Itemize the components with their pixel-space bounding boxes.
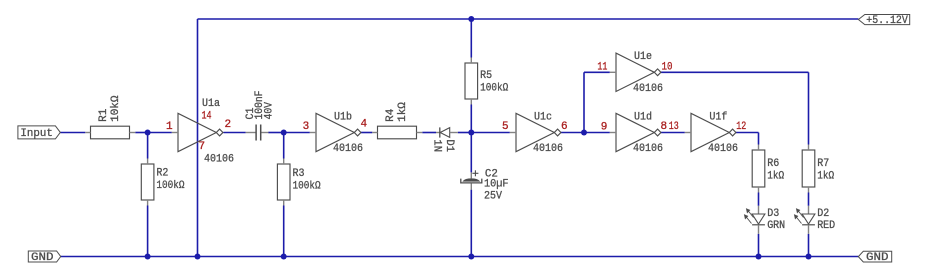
GND port flag (left) xyxy=(28,251,60,264)
wire U1c output to U1d input xyxy=(561,132,610,134)
svg-text:100kΩ: 100kΩ xyxy=(156,180,184,192)
svg-text:R6: R6 xyxy=(767,158,779,170)
wire node A down to R2 xyxy=(147,133,149,159)
svg-text:R1: R1 xyxy=(98,108,110,122)
svg-text:12: 12 xyxy=(736,121,746,133)
junction R2 / GND xyxy=(145,254,151,260)
svg-text:40106: 40106 xyxy=(533,143,563,155)
wire to U1e input xyxy=(584,71,610,73)
junction D2 / GND xyxy=(806,254,812,260)
wire node C to U1c input xyxy=(471,132,510,134)
svg-text:7: 7 xyxy=(199,141,206,153)
svg-text:R5: R5 xyxy=(480,70,492,82)
wire R2 to GND rail xyxy=(147,206,149,257)
junction top rail / R5 xyxy=(468,16,474,22)
wire node D up to U1e input xyxy=(583,72,585,132)
svg-text:R7: R7 xyxy=(817,158,829,170)
svg-text:R4: R4 xyxy=(385,108,397,122)
svg-text:RED: RED xyxy=(817,220,835,232)
inverter U1d (40106 Schmitt trigger) xyxy=(610,111,663,155)
+5..12V supply port flag xyxy=(858,15,909,28)
svg-text:11: 11 xyxy=(597,61,607,73)
wire down to R7 xyxy=(808,72,810,144)
svg-text:D3: D3 xyxy=(767,208,779,220)
svg-text:1kΩ: 1kΩ xyxy=(767,171,784,183)
svg-text:5: 5 xyxy=(502,121,509,133)
svg-text:3: 3 xyxy=(303,121,310,133)
resistor R5 xyxy=(465,58,509,105)
svg-text:100kΩ: 100kΩ xyxy=(293,180,321,192)
wire D1 to node C xyxy=(458,132,472,134)
svg-text:U1a: U1a xyxy=(202,98,220,110)
svg-text:2: 2 xyxy=(225,119,232,131)
resistor R4 xyxy=(372,102,422,139)
svg-text:U1d: U1d xyxy=(634,111,652,123)
wire node A to U1a input xyxy=(148,132,172,134)
svg-text:GND: GND xyxy=(31,252,54,264)
junction D3 / GND xyxy=(756,254,762,260)
inverter U1b (40106 Schmitt trigger) xyxy=(310,111,363,155)
svg-text:10kΩ: 10kΩ xyxy=(110,95,122,122)
svg-text:1: 1 xyxy=(166,121,173,133)
D3 emission arrows xyxy=(745,209,754,224)
junction R3 / GND xyxy=(281,254,287,260)
resistor R7 xyxy=(802,145,834,193)
svg-text:D1: D1 xyxy=(443,139,455,152)
svg-text:40106: 40106 xyxy=(333,143,363,155)
svg-text:10µF: 10µF xyxy=(484,179,509,191)
diode D1 xyxy=(431,127,458,152)
wire U1d output to U1f input xyxy=(661,132,685,134)
wire top rail to R5 xyxy=(470,19,472,58)
junction U1a pin7 / GND xyxy=(195,254,201,260)
svg-text:25V: 25V xyxy=(484,191,502,203)
svg-text:1kΩ: 1kΩ xyxy=(397,102,409,122)
wire R4 to D1 xyxy=(422,132,436,134)
svg-text:GRN: GRN xyxy=(767,220,785,232)
inverter U1a (40106 Schmitt trigger) xyxy=(172,98,234,166)
svg-text:40V: 40V xyxy=(264,102,276,120)
svg-text:Input: Input xyxy=(20,128,53,140)
svg-text:8: 8 xyxy=(661,121,668,133)
inverter U1c (40106 Schmitt trigger) xyxy=(510,111,563,155)
junction C2 / GND xyxy=(468,254,474,260)
svg-text:U1f: U1f xyxy=(709,111,727,123)
svg-text:U1b: U1b xyxy=(334,111,352,123)
GND port flag (right) xyxy=(858,251,891,264)
svg-text:13: 13 xyxy=(669,121,679,133)
svg-text:40106: 40106 xyxy=(633,143,663,155)
wire R7 to D2 xyxy=(808,193,810,206)
svg-text:4: 4 xyxy=(361,119,368,131)
inverter U1f (40106 Schmitt trigger) xyxy=(685,111,738,155)
svg-text:R3: R3 xyxy=(293,168,305,180)
resistor R6 xyxy=(752,145,784,193)
C2 polarity plus sign xyxy=(472,172,478,174)
wire R6 to D3 xyxy=(758,193,760,206)
svg-text:U1e: U1e xyxy=(634,51,652,63)
svg-text:6: 6 xyxy=(561,121,568,133)
wire U1b output to R4 xyxy=(361,132,372,134)
wire C1 to node B xyxy=(268,132,283,134)
resistor R1 xyxy=(85,95,135,139)
Input port flag xyxy=(18,126,60,140)
wire node C down to C2 xyxy=(470,133,472,173)
svg-text:40106: 40106 xyxy=(633,83,663,95)
svg-text:40106: 40106 xyxy=(708,143,738,155)
wire +V top rail xyxy=(198,18,859,20)
svg-text:9: 9 xyxy=(601,122,608,134)
node D junction xyxy=(581,130,587,136)
wire U1a output to C1 xyxy=(223,132,245,134)
resistor R3 xyxy=(277,159,321,206)
wire down to R6 xyxy=(758,133,760,145)
svg-text:+5..12V: +5..12V xyxy=(866,15,908,27)
resistor R2 xyxy=(141,159,185,206)
svg-text:14: 14 xyxy=(202,111,212,123)
svg-text:1kΩ: 1kΩ xyxy=(817,171,834,183)
wire C2 to GND rail xyxy=(470,190,472,257)
wire U1e output across xyxy=(661,71,809,73)
svg-text:GND: GND xyxy=(866,252,889,264)
svg-text:1N: 1N xyxy=(431,139,443,152)
wire R1 to node A xyxy=(135,132,147,134)
wire U1f output xyxy=(736,132,759,134)
svg-text:40106: 40106 xyxy=(204,154,234,166)
wire GND bottom rail xyxy=(61,256,859,258)
wire R3 to GND rail xyxy=(283,206,285,257)
capacitor C2 (electrolytic) xyxy=(461,168,509,202)
svg-text:R2: R2 xyxy=(156,168,168,180)
wire R5 to node C xyxy=(470,105,472,133)
inverter U1e (40106 Schmitt trigger) xyxy=(610,51,663,95)
node B junction xyxy=(281,130,287,136)
wire node B down to R3 xyxy=(283,133,285,159)
LED D3 (GRN) xyxy=(745,206,786,234)
wire D2 to GND rail xyxy=(808,234,810,257)
wire D3 to GND rail xyxy=(758,234,760,257)
wire node B to U1b input xyxy=(284,132,310,134)
node C junction xyxy=(468,130,474,136)
svg-text:D2: D2 xyxy=(817,208,829,220)
capacitor C1 xyxy=(245,91,276,141)
wire U1a supply vertical (pin 14 to pin 7) xyxy=(197,19,199,257)
wire Input to R1 xyxy=(60,132,85,134)
svg-text:10: 10 xyxy=(662,61,673,73)
LED D2 (RED) xyxy=(795,206,836,234)
D2 emission arrows xyxy=(795,209,804,224)
svg-text:100kΩ: 100kΩ xyxy=(480,83,508,95)
svg-text:U1c: U1c xyxy=(534,111,552,123)
node A junction xyxy=(145,130,151,136)
